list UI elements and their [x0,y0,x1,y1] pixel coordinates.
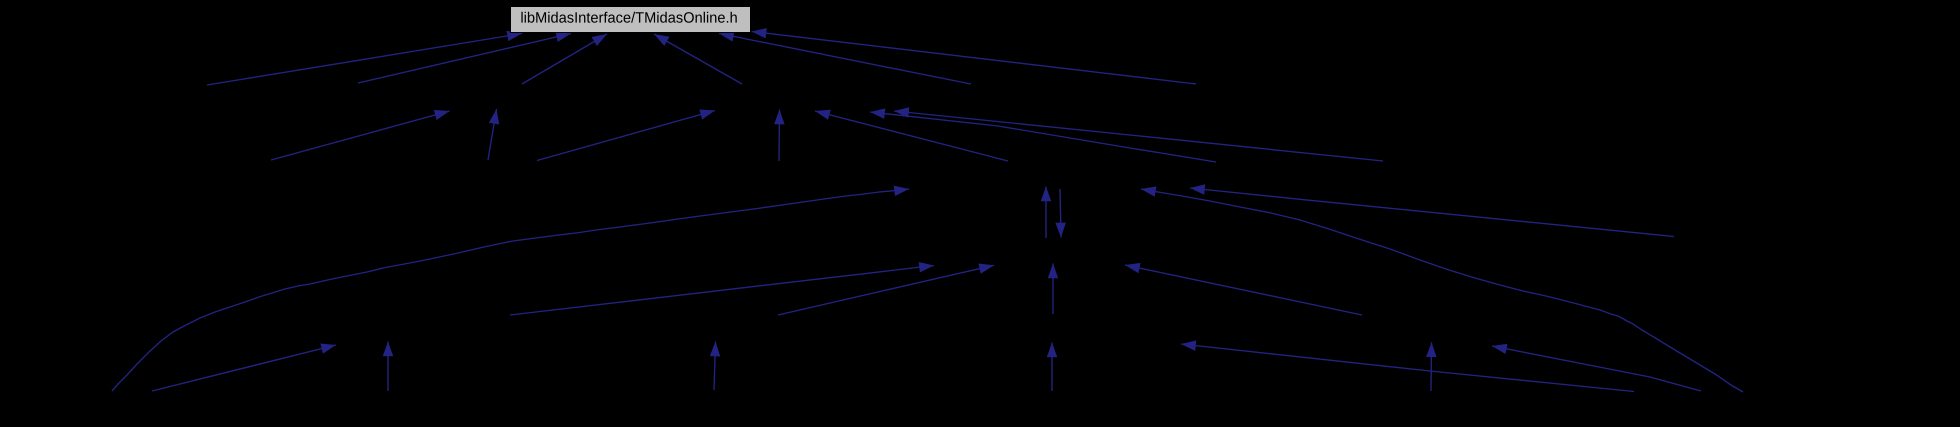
wire: long curved edge bottom-right to R2 [1141,189,1743,392]
wire: edge R1 node to TMidasOnline.h head4 [654,34,742,84]
wire: edge R2 to R1 diagonal [537,111,715,161]
wire: edge R3 to R2 long from right [1190,188,1674,237]
wire: edge R5 to R4 vertical x1431 [1430,342,1433,391]
wire: edge R2 to R1 leftmost [271,111,450,160]
wire: edge R4 to R3 vertical [1052,264,1054,315]
wire: edge R3 to R2 up arrow [1045,187,1047,239]
wire: edge R2 to R1 vertical [778,110,781,162]
wire: edge R1 node to TMidasOnline.h head3 [522,34,607,84]
wire: edge R5 to R4 vertical x1052 [1051,343,1053,392]
wire: edge R5 to R4 vertical x714 [714,342,716,391]
wire: edge R4 to R3 from x778 [778,265,994,315]
wire: edge R1 node to TMidasOnline.h head5 [719,34,971,85]
wire: edge R2 to R1 from x1008 [815,111,1008,161]
wire: edge R2 to R3 down arrow [1060,189,1061,238]
wire: long curved edge bottom-left to R2 [112,189,909,391]
wire: edge R4 to R3 from x510 [510,266,934,316]
wire: edge R1 node to TMidasOnline.h head1 [207,34,522,86]
wire: edge R2 to R1 near-vertical [488,109,497,160]
wire: edge R2 to R1 from x1383 [894,111,1383,161]
wire: edge R2 to R1 from x1216 [870,112,1216,162]
wire: edge R5 to R4 from x1701 [1492,346,1701,391]
wire: edge R1 node to TMidasOnline.h right-side head [752,32,1197,85]
wire: edge R5 to R4 vertical x388 [387,342,389,392]
wire: edge R4 to R3 from x1362 [1125,265,1362,315]
wire: edge R5 to R4 from x152 [152,345,336,391]
node libMidasInterface/TMidasOnline.h [511,7,751,33]
wire: edge R5 to R4 long from x1634 [1181,344,1634,392]
wire: edge R1 node to TMidasOnline.h head2 [358,34,571,84]
